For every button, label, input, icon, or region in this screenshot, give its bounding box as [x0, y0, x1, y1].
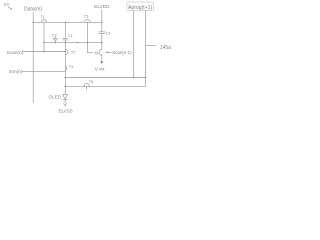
node dot mid wire / T1 gate [43, 42, 45, 44]
svg-text:Scan(n): Scan(n) [7, 50, 24, 56]
wire sense row 2 [65, 85, 145, 87]
svg-text:ELVDD: ELVDD [94, 4, 110, 9]
svg-text:Data(m): Data(m) [24, 6, 42, 12]
transistor T4 bump [65, 66, 66, 70]
svg-text:C2: C2 [52, 34, 57, 38]
box around Aprog label [127, 2, 153, 10]
svg-text:V int: V int [95, 66, 105, 72]
svg-text:T6: T6 [94, 51, 98, 55]
node dot column / sense row 1 [65, 77, 67, 79]
wire top node wire [33, 21, 102, 23]
wire Aprog line A [133, 10, 135, 77]
node arrowhead of 110 pointer [10, 8, 12, 10]
transistor T1 [41, 20, 47, 23]
transistor T2 bump [65, 49, 68, 54]
svg-text:T4: T4 [69, 65, 73, 69]
wire T5 gate stub [86, 86, 88, 89]
transistor T6 on ELVDD column [99, 49, 102, 55]
arrow 110 pointer [8, 7, 11, 9]
node dot line B cross [145, 77, 147, 79]
transistor T5 bump [84, 84, 90, 87]
wire ELVDD supply line [101, 9, 103, 32]
svg-text:C1: C1 [106, 31, 111, 35]
diode OLED [63, 95, 68, 104]
wire tick to 145a [146, 45, 157, 47]
node dot line A end [133, 77, 135, 79]
wire data line vertical [32, 12, 34, 103]
node dot scan / T1 gate [43, 51, 45, 53]
node dot data/top wire [32, 22, 34, 24]
node Vint arrow head [100, 61, 103, 64]
svg-text:OLED: OLED [49, 94, 62, 99]
capacitor C2 [53, 37, 58, 43]
svg-text:T5: T5 [89, 80, 93, 84]
svg-text:T2: T2 [71, 50, 75, 54]
node dot scan / column [65, 51, 67, 53]
transistor T3 [85, 20, 91, 23]
wire Aprog line B [145, 10, 147, 86]
wire T3 gate line [87, 22, 93, 52]
svg-text:Aprog(t+1): Aprog(t+1) [128, 5, 153, 11]
wire middle node wire [44, 42, 102, 44]
wire T1 gate line [43, 22, 45, 51]
node dot mid wire / cap C2 [55, 42, 56, 43]
svg-text:145a: 145a [160, 45, 171, 51]
node dot column / sense row 2 [65, 86, 67, 88]
svg-text:Em(n): Em(n) [9, 69, 22, 75]
node dot top wire / column [65, 22, 67, 24]
svg-text:T3: T3 [84, 14, 88, 18]
svg-text:C1: C1 [68, 34, 73, 38]
wire Scan(n) line [22, 51, 65, 53]
node dot mid wire / column [65, 42, 67, 44]
svg-text:Scan(n-1): Scan(n-1) [112, 50, 132, 55]
node dot top wire / ELVDD [101, 22, 103, 24]
wire sense row 1 [65, 77, 145, 79]
wire drive column [64, 43, 66, 95]
node dot mid wire / ELVDD col [101, 42, 103, 44]
wire gate leader from Scan(n-1) [106, 52, 112, 53]
svg-text:110: 110 [3, 1, 10, 6]
wire Em(n) line [22, 71, 65, 73]
svg-text:ELVSS: ELVSS [59, 109, 73, 114]
wire to Vint arrow [101, 55, 103, 62]
svg-text:T1: T1 [40, 15, 44, 19]
node ELVSS arrowhead [64, 103, 67, 106]
capacitor C1b [63, 22, 68, 42]
node dot mid wire x77 [77, 42, 79, 44]
capacitor C1 on ELVDD column [99, 32, 105, 50]
node dot mid wire / T3 gate [87, 42, 89, 44]
